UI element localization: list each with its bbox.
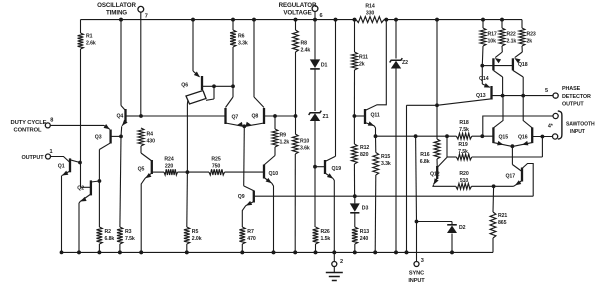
svg-text:OUTPUT: OUTPUT bbox=[22, 155, 45, 161]
svg-text:CONTROL: CONTROL bbox=[14, 127, 43, 133]
svg-text:1.5k: 1.5k bbox=[321, 236, 331, 242]
svg-text:DETECTOR: DETECTOR bbox=[562, 94, 591, 100]
svg-text:R7: R7 bbox=[247, 229, 254, 235]
svg-text:8: 8 bbox=[50, 118, 53, 124]
svg-text:INPUT: INPUT bbox=[408, 278, 425, 284]
svg-text:2k: 2k bbox=[359, 62, 365, 68]
svg-text:2.0k: 2.0k bbox=[192, 236, 202, 242]
svg-text:3: 3 bbox=[421, 258, 424, 264]
svg-text:R6: R6 bbox=[238, 34, 245, 40]
svg-text:220: 220 bbox=[165, 164, 174, 170]
svg-text:R23: R23 bbox=[527, 32, 536, 38]
svg-text:470: 470 bbox=[247, 236, 256, 242]
svg-text:2.1k: 2.1k bbox=[507, 39, 517, 45]
svg-text:6: 6 bbox=[320, 13, 323, 19]
svg-text:R16: R16 bbox=[420, 152, 429, 158]
svg-text:R14: R14 bbox=[365, 4, 374, 10]
svg-text:3.3k: 3.3k bbox=[381, 161, 391, 167]
svg-text:Q16: Q16 bbox=[518, 135, 528, 141]
svg-text:R24: R24 bbox=[164, 157, 173, 163]
svg-text:Q13: Q13 bbox=[476, 93, 486, 99]
svg-text:OUTPUT: OUTPUT bbox=[562, 101, 584, 107]
svg-text:865: 865 bbox=[498, 220, 507, 226]
svg-text:240: 240 bbox=[360, 236, 369, 242]
svg-text:1.2k: 1.2k bbox=[280, 139, 290, 145]
svg-text:510: 510 bbox=[460, 178, 469, 184]
svg-text:R1: R1 bbox=[86, 34, 93, 40]
svg-text:R22: R22 bbox=[507, 32, 516, 38]
svg-text:Q6: Q6 bbox=[181, 83, 188, 89]
svg-text:R3: R3 bbox=[125, 229, 132, 235]
svg-text:Q12: Q12 bbox=[430, 172, 440, 178]
svg-text:1: 1 bbox=[50, 149, 53, 155]
svg-text:5: 5 bbox=[545, 88, 548, 94]
svg-text:R17: R17 bbox=[488, 32, 497, 38]
svg-text:Q9: Q9 bbox=[238, 194, 245, 200]
svg-text:7: 7 bbox=[145, 14, 148, 20]
svg-text:Q3: Q3 bbox=[95, 135, 102, 141]
svg-text:Z2: Z2 bbox=[402, 60, 408, 66]
svg-text:INPUT: INPUT bbox=[570, 129, 586, 135]
svg-text:VOLTAGE: VOLTAGE bbox=[283, 9, 311, 16]
svg-text:750: 750 bbox=[212, 164, 221, 170]
svg-text:OSCILLATOR: OSCILLATOR bbox=[97, 2, 136, 9]
svg-text:R15: R15 bbox=[381, 154, 390, 160]
svg-text:820: 820 bbox=[360, 152, 369, 158]
svg-text:Q2: Q2 bbox=[77, 186, 84, 192]
svg-text:7.5k: 7.5k bbox=[125, 236, 135, 242]
svg-text:R21: R21 bbox=[498, 213, 507, 219]
svg-text:Q14: Q14 bbox=[479, 76, 489, 82]
svg-text:REGULATOR: REGULATOR bbox=[279, 2, 317, 9]
svg-text:Q15: Q15 bbox=[499, 135, 509, 141]
svg-text:R4: R4 bbox=[147, 131, 154, 137]
svg-text:DUTY CYCLE: DUTY CYCLE bbox=[11, 120, 47, 126]
svg-text:SYNC: SYNC bbox=[409, 271, 424, 277]
svg-text:3.6k: 3.6k bbox=[300, 145, 310, 151]
svg-text:Q17: Q17 bbox=[505, 174, 515, 180]
svg-text:330: 330 bbox=[366, 11, 375, 17]
svg-text:Q7: Q7 bbox=[232, 115, 239, 121]
svg-text:R9: R9 bbox=[280, 132, 287, 138]
svg-text:R8: R8 bbox=[301, 41, 308, 47]
svg-text:D2: D2 bbox=[459, 225, 466, 231]
svg-text:TIMING: TIMING bbox=[106, 9, 127, 16]
svg-text:R5: R5 bbox=[192, 229, 199, 235]
svg-text:Q5: Q5 bbox=[138, 166, 145, 172]
svg-text:R26: R26 bbox=[321, 229, 330, 235]
svg-text:7.5k: 7.5k bbox=[458, 149, 468, 155]
svg-text:R25: R25 bbox=[211, 157, 220, 163]
svg-text:Q1: Q1 bbox=[58, 164, 65, 170]
svg-text:6.8k: 6.8k bbox=[420, 159, 430, 165]
svg-text:R12: R12 bbox=[360, 145, 369, 151]
svg-text:R20: R20 bbox=[459, 171, 468, 177]
svg-text:7.5k: 7.5k bbox=[459, 127, 469, 133]
svg-text:Q18: Q18 bbox=[518, 62, 528, 68]
svg-text:R10: R10 bbox=[300, 138, 309, 144]
svg-text:10k: 10k bbox=[488, 39, 497, 45]
svg-text:Q8: Q8 bbox=[252, 114, 259, 120]
svg-text:2.4k: 2.4k bbox=[301, 48, 311, 54]
svg-text:R13: R13 bbox=[360, 229, 369, 235]
svg-text:6.8k: 6.8k bbox=[105, 236, 115, 242]
svg-text:Q4: Q4 bbox=[117, 114, 124, 120]
svg-text:R2: R2 bbox=[105, 229, 112, 235]
svg-text:R18: R18 bbox=[459, 120, 468, 126]
svg-text:430: 430 bbox=[147, 138, 156, 144]
svg-text:PHASE: PHASE bbox=[562, 86, 581, 92]
svg-text:Q19: Q19 bbox=[332, 166, 342, 172]
svg-text:2.6k: 2.6k bbox=[86, 41, 96, 47]
svg-text:Q10: Q10 bbox=[269, 171, 279, 177]
svg-text:D1: D1 bbox=[321, 63, 328, 69]
svg-text:Q11: Q11 bbox=[371, 113, 380, 119]
svg-text:3.3k: 3.3k bbox=[238, 41, 248, 47]
svg-text:Z1: Z1 bbox=[323, 114, 329, 120]
svg-text:2k: 2k bbox=[527, 39, 533, 45]
svg-text:R11: R11 bbox=[359, 55, 368, 61]
svg-text:SAWTOOTH: SAWTOOTH bbox=[566, 121, 595, 127]
svg-text:R19: R19 bbox=[458, 142, 467, 148]
svg-text:D3: D3 bbox=[362, 206, 369, 212]
svg-text:2: 2 bbox=[340, 259, 343, 265]
